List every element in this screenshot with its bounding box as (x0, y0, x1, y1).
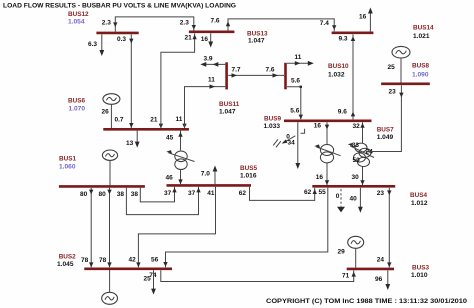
busbar BUS3 (347, 268, 394, 271)
switch tick on BUS9 load wire (301, 129, 305, 133)
svg-text:26: 26 (102, 109, 110, 116)
load label 40 (350, 196, 358, 203)
flow label 42 (BUS2 end) (129, 257, 137, 264)
line 4-9 wire lower (326, 163, 328, 185)
load label 25 (144, 276, 152, 283)
svg-text:42: 42 (129, 257, 137, 264)
flow label 78 (circuit A BUS2 end) (81, 257, 89, 264)
flow label 21 (BUS6 end) (150, 116, 158, 123)
svg-text:5.6: 5.6 (290, 108, 299, 115)
value BUS3 1.010 (411, 272, 428, 279)
flow label 5.6 (BUS10 end) (291, 78, 300, 85)
line 9-14 wire (352, 34, 354, 119)
line 2-3 arrowhead at BUS3 (up) (352, 272, 356, 277)
svg-text:80: 80 (99, 191, 107, 198)
transformer T 4-7 (348, 143, 374, 167)
svg-text:23: 23 (389, 89, 397, 96)
line 4-5 wire (250, 187, 315, 201)
line 12-13 arrowhead at BUS13 end (192, 25, 196, 30)
load label 34 (BUS9) (288, 140, 296, 147)
line 2-3 wire (161, 270, 354, 281)
svg-text:BUS6: BUS6 (68, 98, 85, 105)
transformer T 4-9 (314, 144, 340, 163)
svg-text:16: 16 (359, 14, 367, 21)
flow label 7.0 (201, 171, 210, 178)
line 1-2 A arrowhead below BUS1 (89, 190, 93, 195)
svg-text:40: 40 (350, 196, 358, 203)
BUS5 flow arrow 7.0 (up) (213, 166, 218, 185)
shunt label 0 (BUS9) (286, 134, 290, 141)
svg-text:1.032: 1.032 (328, 72, 345, 79)
svg-text:BUS2: BUS2 (59, 254, 76, 261)
line 13-14 wire (228, 19, 334, 31)
line 12-13 wire (115, 17, 194, 32)
svg-text:LOAD FLOW RESULTS - BUSBAR PU: LOAD FLOW RESULTS - BUSBAR PU VOLTS & LI… (3, 3, 236, 10)
flow label 7.6 (line 10-11) (266, 67, 275, 74)
BUS9 shunt capacitor arrow (273, 136, 295, 148)
svg-text:21: 21 (150, 116, 158, 123)
line 3-4 wire (388, 188, 390, 268)
line 1-5 B arrowhead at BUS5 (up) (172, 188, 176, 193)
svg-text:21: 21 (185, 35, 193, 42)
busbar BUS4 (312, 185, 395, 188)
flow label 11 (BUS11 end) (208, 76, 215, 83)
line 13-14 arrowhead at BUS13 end (up) (226, 21, 230, 26)
line 9-10 arrowhead at BUS9 (down) (299, 115, 303, 120)
svg-text:9.3: 9.3 (339, 36, 348, 43)
label BUS6 (68, 98, 85, 105)
wire G8 to BUS8 (400, 58, 402, 83)
line 1-2 circuit A wire (90, 188, 92, 267)
label BUS14 (413, 25, 434, 32)
flow label 71 (BUS3 end) (342, 273, 350, 280)
svg-text:32: 32 (353, 123, 361, 130)
flow label 80 (circuit B BUS1 end) (99, 191, 107, 198)
line 6-13 arrowhead at BUS6 (down) (159, 124, 163, 129)
svg-text:37: 37 (164, 190, 172, 197)
T 5-6 arrowhead at BUS6 (up) (178, 132, 182, 137)
svg-text:46: 46 (166, 175, 174, 182)
value BUS11 1.047 (219, 109, 236, 116)
transformer wire T 5-6 to BUS5 (180, 169, 182, 184)
flow label 46 (166, 175, 174, 182)
svg-text:COPYRIGHT (C) TOM InC 1988 TIM: COPYRIGHT (C) TOM InC 1988 TIME : 13:11:… (266, 298, 467, 305)
BUS3 load arrow 96 (385, 270, 390, 290)
generator G2 at BUS2 (102, 292, 118, 304)
line 6-11 wire (185, 87, 226, 128)
flow label 55 (BUS4 end) (319, 189, 327, 196)
line 1-2 B arrowhead below BUS1 (107, 190, 111, 195)
svg-text:7.6: 7.6 (266, 67, 275, 74)
svg-text:78: 78 (99, 257, 107, 264)
flow label 11 (BUS6 end) (176, 116, 183, 123)
value BUS4 1.012 (411, 200, 428, 207)
BUS2 load arrow 25 (151, 270, 156, 294)
transformer wire BUS6 to T 5-6 (180, 131, 182, 151)
flow label 23 (line 7-8 at BUS8) (389, 89, 397, 96)
svg-text:1.010: 1.010 (411, 272, 428, 279)
svg-text:1.012: 1.012 (411, 200, 428, 207)
line 3-4 arrowhead at BUS3 (down) (387, 262, 391, 267)
svg-text:BUS7: BUS7 (377, 127, 394, 134)
svg-text:7.7: 7.7 (232, 67, 241, 74)
line 4-7 arrowhead at BUS4 (down) (360, 180, 364, 185)
line 6-11 arrowhead at BUS11 (right) (210, 84, 216, 88)
label BUS3 (412, 265, 429, 272)
svg-text:1.054: 1.054 (68, 19, 85, 26)
flow label 5.6 (BUS9 end) (290, 108, 299, 115)
svg-text:7.6: 7.6 (211, 18, 220, 25)
svg-text:56: 56 (151, 257, 159, 264)
svg-text:6.3: 6.3 (88, 41, 97, 48)
BUS14 load arrow 16 (up) (368, 8, 373, 32)
svg-text:5.6: 5.6 (291, 78, 300, 85)
svg-text:BUS9: BUS9 (264, 115, 281, 122)
value BUS6 1.070 (69, 106, 86, 113)
line 6-12 arrowhead bottom (129, 123, 133, 128)
svg-text:34: 34 (288, 140, 296, 147)
svg-text:1.090: 1.090 (412, 72, 429, 79)
svg-text:2.3: 2.3 (180, 20, 189, 27)
svg-text:16: 16 (314, 123, 322, 130)
generator G6 at BUS6 (103, 94, 120, 105)
flow label 9.6 (338, 109, 347, 116)
flow label 38 (circuit B BUS1 end) (131, 191, 139, 198)
transformer T 5-6 (166, 150, 194, 169)
svg-text:BUS8: BUS8 (412, 63, 429, 70)
svg-text:1.060: 1.060 (59, 164, 76, 171)
flow label 74 (BUS2 end) (149, 272, 157, 279)
svg-text:71: 71 (342, 273, 350, 280)
label BUS12 (68, 11, 89, 18)
svg-text:3.9: 3.9 (204, 56, 213, 63)
busbar BUS1 (59, 185, 145, 188)
load label 13 (126, 140, 134, 147)
label BUS13 (247, 31, 268, 38)
load label 16 (BUS14) (359, 14, 367, 21)
flow label 50 (353, 157, 361, 164)
flow label 62 (BUS4 end) (304, 189, 312, 196)
wire G3 to BUS3 (355, 248, 357, 267)
svg-text:16: 16 (201, 36, 209, 43)
busbar BUS8 (381, 83, 430, 86)
line 1-5 circuit A wire (126, 187, 198, 215)
generator G8 at BUS8 (392, 46, 410, 58)
svg-text:45: 45 (166, 135, 174, 142)
svg-text:24: 24 (377, 257, 385, 264)
flow label 2.3 (BUS13 end) (180, 20, 189, 27)
flow label 32 (line 7-9 at BUS9) (353, 123, 361, 130)
line 6-13 arrowhead at BUS13 (192, 34, 196, 39)
busbar BUS10 (vertical) (284, 63, 287, 90)
svg-text:BUS4: BUS4 (410, 192, 427, 199)
value BUS10 1.032 (328, 72, 345, 79)
wire G2 to BUS2 (109, 270, 111, 292)
busbar BUS12 (96, 32, 138, 35)
generator G3 at BUS3 (348, 236, 364, 248)
T 5-6 arrowhead at BUS5 (down) (178, 179, 182, 184)
line 1-2 circuit B wire (109, 188, 111, 267)
svg-text:7.0: 7.0 (201, 171, 210, 178)
svg-text:BUS12: BUS12 (68, 11, 89, 18)
line 12-13 arrowhead at BUS12 end (113, 22, 117, 27)
svg-text:1.047: 1.047 (219, 109, 236, 116)
flow label 16 (line 4-9 at BUS4) (316, 174, 324, 181)
svg-text:1.033: 1.033 (264, 123, 281, 130)
flow label 7.4 (BUS14 end) (320, 20, 329, 27)
svg-text:29: 29 (338, 249, 346, 256)
svg-text:1.021: 1.021 (413, 33, 430, 40)
flow label 56 (BUS2 end) (151, 257, 159, 264)
load label 96 (375, 276, 383, 283)
svg-text:11: 11 (208, 76, 215, 83)
flow label 33 (352, 142, 360, 149)
svg-text:1.070: 1.070 (69, 106, 86, 113)
flow label 80 (circuit A BUS1 end) (80, 191, 88, 198)
line 1-2 A arrowhead at BUS2 (89, 262, 93, 267)
label BUS2 (59, 254, 76, 261)
flow label 37 (circuit B BUS5 end) (164, 190, 172, 197)
svg-text:78: 78 (81, 257, 89, 264)
flow label 78 (circuit B BUS2 end) (99, 257, 107, 264)
generator G1 at BUS1 (102, 150, 117, 160)
flow label 41 (BUS5 end) (207, 190, 215, 197)
line 1-5 A arrowhead at BUS5 (up) (196, 188, 200, 193)
svg-text:23: 23 (377, 190, 385, 197)
svg-text:30: 30 (352, 174, 360, 181)
shunt label 0 (BUS4) (336, 193, 340, 200)
svg-text:25: 25 (144, 276, 152, 283)
line 7-9 arrowhead below BUS9 (up) (360, 123, 364, 128)
line 1-5 circuit B wire (140, 187, 174, 202)
svg-text:1.047: 1.047 (248, 38, 265, 45)
line 6-12 wire (130, 34, 132, 128)
line 6-12 arrowhead top (129, 39, 133, 44)
value BUS5 1.016 (240, 173, 257, 180)
flow label 30 (line 4-7 at BUS4) (352, 174, 360, 181)
line 4-9 arrowhead at BUS4 (down) (325, 180, 329, 185)
BUS6 load arrow 13 (135, 131, 140, 148)
svg-text:0.3: 0.3 (117, 36, 126, 43)
svg-text:7.4: 7.4 (320, 20, 329, 27)
line 2-5 wire (138, 187, 215, 267)
load label 11 (BUS10) (295, 54, 302, 61)
wire G6 to BUS6 (110, 104, 112, 128)
svg-text:BUS3: BUS3 (412, 265, 429, 272)
svg-text:11: 11 (176, 116, 183, 123)
line 4-7 wire lower (362, 167, 364, 186)
svg-text:1.049: 1.049 (377, 134, 394, 141)
load label 6.3 (88, 41, 97, 48)
svg-text:0.7: 0.7 (115, 117, 124, 124)
flow label 45 (166, 135, 174, 142)
label BUS11 (219, 101, 240, 108)
label BUS7 (377, 127, 394, 134)
busbar BUS2 (84, 267, 172, 270)
line 4-5 arrowhead at BUS4 (up) (313, 189, 317, 194)
svg-text:25: 25 (388, 64, 396, 71)
svg-text:38: 38 (117, 191, 125, 198)
svg-text:BUS5: BUS5 (240, 165, 257, 172)
label G8 output 25 (388, 64, 396, 71)
svg-text:1.045: 1.045 (57, 261, 74, 268)
svg-text:80: 80 (80, 191, 88, 198)
BUS11 load arrow 3.9 (left) (200, 62, 225, 67)
svg-text:96: 96 (375, 276, 383, 283)
busbar BUS6 (103, 128, 189, 131)
svg-text:11: 11 (295, 54, 302, 61)
svg-text:13: 13 (126, 140, 134, 147)
line 4-9 wire upper (326, 122, 328, 144)
BUS4 load arrow 40 (358, 188, 363, 213)
line 10-11 arrowhead right (273, 73, 279, 77)
line 10-11 arrowhead left (232, 73, 238, 77)
line 9-14 arrowhead at BUS14 end (up) (351, 36, 355, 41)
line 9-14 arrowhead at BUS9 end (up) (351, 112, 355, 117)
svg-text:50: 50 (353, 157, 361, 164)
label BUS4 (410, 192, 427, 199)
value BUS1 1.060 (59, 164, 76, 171)
busbar BUS5 (167, 184, 252, 187)
flow label 2.3 (BUS12 end) (102, 20, 111, 27)
transformer T 7-9 (355, 143, 371, 157)
flow label 24 (line 7-8 at BUS7) (366, 149, 374, 156)
value BUS2 1.045 (57, 261, 74, 268)
line 1-2 B arrowhead at BUS2 (107, 262, 111, 267)
BUS12 load arrow 6.3 (99, 35, 104, 57)
label G3 output 29 (338, 249, 346, 256)
busbar BUS13 (189, 30, 235, 33)
busbar BUS9 (284, 120, 372, 123)
label G6 output 26 (102, 109, 110, 116)
svg-text:37: 37 (188, 190, 196, 197)
svg-text:BUS14: BUS14 (413, 25, 434, 32)
wire G1 to BUS1 (109, 160, 111, 185)
value BUS9 1.033 (264, 123, 281, 130)
flow label 24 (BUS3 end) (377, 257, 385, 264)
svg-text:BUS13: BUS13 (247, 31, 268, 38)
value BUS14 1.021 (413, 33, 430, 40)
flow label 16 (line 4-9 at BUS9) (314, 123, 322, 130)
line 6-13 wire (161, 34, 195, 129)
load label 3.9 (204, 56, 213, 63)
flow label 0.3 (117, 36, 126, 43)
BUS10 load arrow 11 (right) (287, 61, 314, 66)
busbar BUS11 (vertical) (225, 62, 228, 89)
flow label 62 (BUS5 end) (239, 190, 247, 197)
svg-text:BUS11: BUS11 (219, 101, 240, 108)
svg-text:16: 16 (316, 174, 324, 181)
value BUS8 1.090 (412, 72, 429, 79)
BUS13 load arrow 16 (208, 33, 213, 47)
BUS9 load arrow 34 (295, 122, 300, 169)
svg-text:41: 41 (207, 190, 215, 197)
svg-text:BUS1: BUS1 (59, 156, 76, 163)
flow label 7.6 (BUS13 end) (211, 18, 220, 25)
label BUS10 (328, 63, 349, 70)
value BUS12 1.054 (68, 19, 85, 26)
svg-text:55: 55 (319, 189, 327, 196)
busbar BUS14 (332, 31, 374, 34)
label BUS8 (412, 63, 429, 70)
line 7-9 wire (362, 122, 364, 143)
svg-text:38: 38 (131, 191, 139, 198)
line 6-11 arrowhead at BUS6 (down) (182, 124, 186, 129)
svg-text:62: 62 (239, 190, 247, 197)
line 3-4 arrowhead below BUS4 (387, 190, 391, 195)
line 2-4 wire (166, 188, 328, 267)
label BUS5 (240, 165, 257, 172)
load label 16 (201, 36, 209, 43)
svg-text:33: 33 (352, 142, 360, 149)
flow label 0.7 (115, 117, 124, 124)
label BUS1 (59, 156, 76, 163)
flow label 37 (circuit A BUS5 end) (188, 190, 196, 197)
svg-text:9.6: 9.6 (338, 109, 347, 116)
line 7-8 arrowhead below BUS8 (399, 93, 403, 98)
BUS4 shunt dashed line with arrowhead (337, 189, 345, 212)
line 9-10 wire (287, 86, 302, 120)
line 13-14 arrowhead at BUS14 end (down) (332, 25, 336, 30)
svg-text:62: 62 (304, 189, 312, 196)
line 4-9 arrowhead below BUS9 (325, 125, 329, 130)
flow label 23 (BUS4 end) (377, 190, 385, 197)
label BUS9 (264, 115, 281, 122)
line 2-5 arrowhead at BUS2 (down) (136, 262, 140, 267)
svg-text:0: 0 (336, 193, 340, 200)
line 10-11 wire (228, 74, 284, 76)
svg-text:BUS10: BUS10 (328, 63, 349, 70)
svg-text:1.016: 1.016 (240, 173, 257, 180)
line 2-4 arrowhead at BUS2 (down) (163, 262, 167, 267)
svg-text:2.3: 2.3 (102, 20, 111, 27)
line 7-8 wire (366, 85, 401, 151)
flow label 9.3 (339, 36, 348, 43)
value BUS13 1.047 (248, 38, 265, 45)
flow label 7.7 (232, 67, 241, 74)
flow label 38 (circuit A BUS1 end) (117, 191, 125, 198)
value BUS7 1.049 (377, 134, 394, 141)
flow label 21 (BUS13 end) (185, 35, 193, 42)
